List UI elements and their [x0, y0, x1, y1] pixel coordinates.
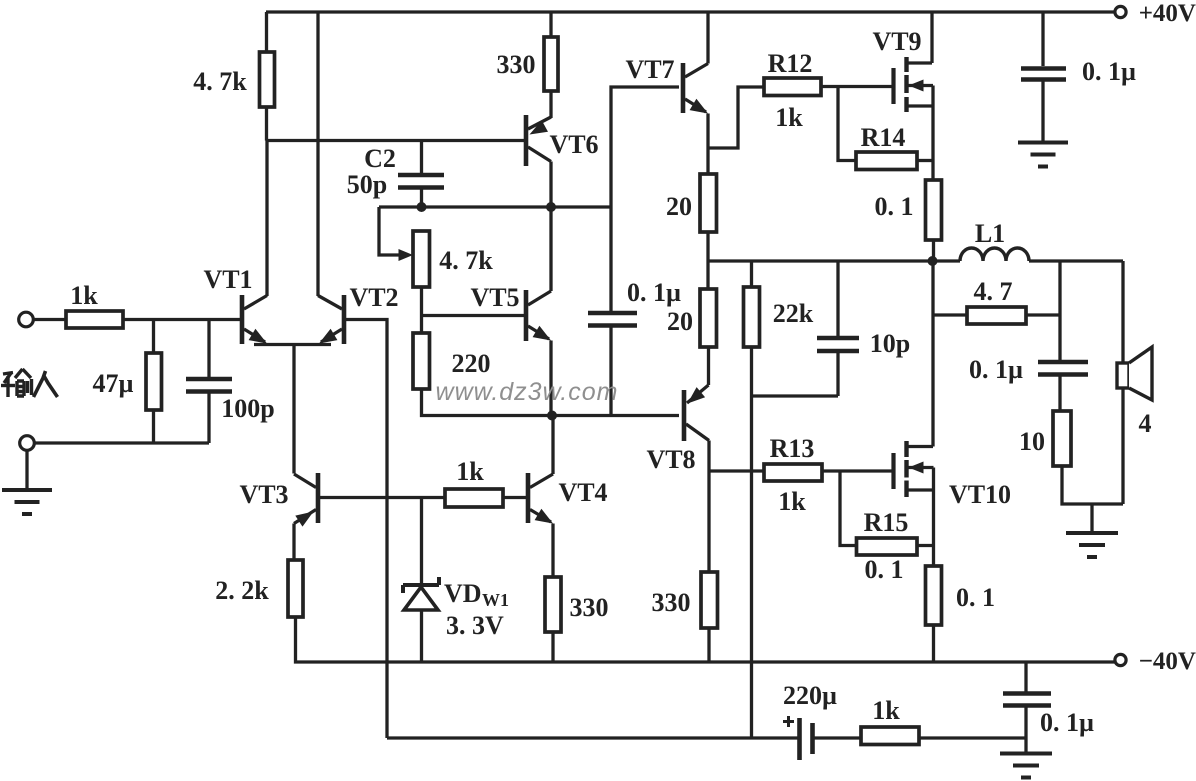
- label 1k feedback: [872, 696, 900, 725]
- label VT1: [203, 265, 252, 294]
- svg-text:www.dz3w.com: www.dz3w.com: [436, 378, 619, 406]
- resistor 1k feedback: [861, 727, 919, 745]
- label 2.2k: [215, 576, 269, 605]
- resistor 0.1 VT9: [926, 180, 942, 240]
- svg-text:0. 1: 0. 1: [875, 192, 914, 221]
- label 0.1u middle: [627, 278, 681, 307]
- transistor VT5 (NPN): [526, 290, 551, 341]
- resistor 4.7k preset: [413, 231, 430, 287]
- wire VT2 base feedback drop: [344, 320, 387, 739]
- resistor/cap 47u body: [146, 353, 162, 410]
- mosfet VT10 (N-channel): [894, 441, 934, 497]
- transistor VT8 (PNP): [684, 385, 709, 441]
- wire VT1-VT2 emitter bus: [254, 343, 331, 346]
- node junction C2/4.7k: [417, 202, 427, 212]
- svg-text:330: 330: [652, 588, 691, 617]
- wire 0.1u +rail to ground: [1041, 80, 1044, 142]
- label 3.3V: [446, 611, 504, 640]
- resistor 1k bias: [445, 489, 503, 507]
- terminal -40V: [1115, 648, 1196, 675]
- wire 47u bottom: [152, 410, 155, 443]
- svg-text:330: 330: [497, 50, 536, 79]
- capacitor 0.1u -rail: [1003, 694, 1051, 706]
- label VT4: [558, 478, 607, 507]
- svg-text:VT7: VT7: [625, 55, 674, 84]
- wire 20 upper to output node: [706, 232, 709, 261]
- wire 22k bottom: [750, 347, 753, 396]
- svg-text:10p: 10p: [870, 329, 910, 358]
- label 1k: [70, 281, 98, 310]
- label R15: [864, 508, 909, 537]
- wire input to R 1k: [34, 318, 67, 321]
- wire emitter bus to VT3 collector: [292, 345, 295, 474]
- wire 20 lower top: [706, 261, 709, 289]
- wire 330 VT8 bottom: [707, 628, 710, 662]
- resistor 220: [413, 333, 430, 389]
- wire 220 top: [420, 316, 423, 334]
- svg-text:VT8: VT8: [646, 445, 695, 474]
- wire feedback line left: [387, 736, 799, 739]
- label R12 value 1k: [775, 103, 803, 132]
- wire 22k/10p node line: [752, 394, 839, 397]
- wire +40V top supply rail: [266, 10, 1115, 13]
- watermark: [436, 378, 619, 406]
- capacitor 100p top stem: [207, 320, 210, 378]
- label 4.7: [974, 277, 1013, 306]
- wire -40V bottom supply rail: [296, 618, 1116, 662]
- wire zener top: [420, 498, 423, 586]
- svg-text:0. 1: 0. 1: [956, 583, 995, 612]
- wire 1k to VT1 base: [123, 318, 240, 321]
- svg-text:+40V: +40V: [1139, 0, 1196, 27]
- transistor VT2 (NPN, mirrored): [318, 295, 344, 344]
- terminal +40V: [1115, 0, 1196, 27]
- wire output rail: [708, 259, 960, 262]
- wire 1k feedback right: [919, 736, 1026, 739]
- wire zener bottom: [420, 610, 423, 662]
- capacitor 220u electrolytic: [800, 718, 813, 760]
- node junction VT6 collector: [546, 202, 556, 212]
- svg-text:R15: R15: [864, 508, 909, 537]
- label VT9: [872, 27, 921, 56]
- svg-text:20: 20: [667, 307, 693, 336]
- label 220u plus: [783, 716, 794, 727]
- ground -rail decoupler: [1000, 754, 1052, 778]
- wire VT5 base: [422, 314, 525, 317]
- wire 220 bottom to bias line: [422, 389, 680, 416]
- label 0.1 VT10: [956, 583, 995, 612]
- svg-text:1k: 1k: [778, 487, 806, 516]
- wire zobel drop: [1058, 261, 1061, 360]
- label 10 zobel: [1019, 427, 1045, 456]
- label R15 value 0.1: [865, 555, 904, 584]
- resistor 330 top wire: [549, 12, 552, 37]
- terminal input ground side: [20, 436, 35, 451]
- wire 0.1 VT10 bottom: [932, 625, 935, 662]
- transistor VT6 (PNP): [526, 115, 551, 166]
- capacitor 10p: [817, 338, 859, 351]
- resistor 10 zobel: [1053, 411, 1071, 466]
- wire 330 VT4 bottom: [551, 632, 554, 662]
- resistor 4.7k tail: [260, 52, 275, 107]
- wire 0.1 VT9 bottom: [932, 240, 935, 261]
- label 0.1u -rail: [1040, 708, 1094, 737]
- label speaker 4: [1139, 409, 1152, 438]
- wire 0.1u top-right stem: [1041, 12, 1044, 66]
- resistor 330 VT8: [701, 572, 718, 628]
- wire 10 bottom: [1062, 466, 1123, 504]
- resistor 4.7 damping: [967, 307, 1026, 324]
- svg-text:R12: R12: [768, 49, 813, 78]
- wire VT7 emitter down: [706, 114, 709, 175]
- label C2: [364, 144, 396, 173]
- wire VT7 base drop: [611, 87, 679, 311]
- speaker 4 ohm: [1117, 347, 1152, 400]
- label 47u: [93, 369, 134, 398]
- svg-text:VD: VD: [444, 579, 482, 608]
- svg-text:VT1: VT1: [203, 265, 252, 294]
- label R12: [768, 49, 813, 78]
- wire 20 lower to VT8 emitter: [707, 347, 710, 385]
- zener diode VDW1: [403, 577, 439, 610]
- wire VT8 collector to R13: [709, 469, 764, 472]
- label 1k bias: [456, 457, 484, 486]
- wire pot wiper: [379, 207, 401, 255]
- node junction bias line: [547, 411, 557, 421]
- wire terminal to ground: [25, 450, 28, 489]
- svg-text:20: 20: [666, 192, 692, 221]
- transistor VT1 (NPN): [242, 295, 267, 344]
- wire VT7 emitter to R12: [708, 87, 764, 148]
- pot wiper arrow: [399, 249, 414, 261]
- terminal input signal: [19, 312, 34, 327]
- wire VT4 emitter to 330: [551, 524, 554, 578]
- label 330 VT4: [570, 593, 609, 622]
- wire 1k to VT4 base: [503, 496, 526, 499]
- wire VT8 collector down: [707, 441, 710, 573]
- svg-text:−40V: −40V: [1139, 648, 1196, 675]
- wire 330 to VT6 emitter: [549, 91, 552, 118]
- wire speaker return: [1121, 388, 1124, 504]
- label 100p: [221, 394, 274, 423]
- wire 10p bottom stem: [836, 351, 839, 396]
- wire output rail after L1: [1029, 259, 1123, 262]
- svg-text:10: 10: [1019, 427, 1045, 456]
- wire VT4 collector: [551, 416, 554, 475]
- wire 0.1u -rail stem: [1024, 662, 1027, 692]
- label VT5: [470, 283, 519, 312]
- wire 10p top stem: [836, 261, 839, 336]
- label VDW1: [444, 579, 509, 610]
- label VT8: [646, 445, 695, 474]
- label R13: [770, 434, 815, 463]
- node junction output: [928, 256, 938, 266]
- label 0.1 VT9: [875, 192, 914, 221]
- wire VAS node line: [379, 205, 611, 208]
- wire VT2 collector to +rail: [316, 12, 319, 296]
- svg-text:VT6: VT6: [549, 130, 598, 159]
- label 50p: [347, 170, 387, 199]
- label VT3: [239, 480, 288, 509]
- svg-text:VT5: VT5: [470, 283, 519, 312]
- svg-text:VT2: VT2: [349, 283, 398, 312]
- svg-text:4. 7k: 4. 7k: [439, 246, 493, 275]
- wire VT6 collector: [549, 162, 552, 208]
- wire 4.7k bottom to node: [265, 107, 268, 141]
- wire speaker feed: [1121, 261, 1124, 363]
- label 0.1u zobel: [969, 355, 1023, 384]
- svg-text:1k: 1k: [456, 457, 484, 486]
- wire R15 right: [917, 544, 934, 547]
- wire R15 left drop: [840, 471, 857, 546]
- wire speaker ground stem: [1090, 504, 1093, 532]
- svg-text:C2: C2: [364, 144, 396, 173]
- resistor 20 lower: [700, 289, 717, 347]
- label VT2: [349, 283, 398, 312]
- label 10p: [870, 329, 910, 358]
- capacitor 0.1u middle: [588, 313, 637, 326]
- label 4.7k: [193, 67, 247, 96]
- resistor 1k input: [66, 311, 123, 328]
- wire VT3 base line: [320, 496, 445, 499]
- wire VT10 drain up to output: [931, 261, 934, 447]
- svg-text:100p: 100p: [221, 394, 274, 423]
- wire VT5 collector: [549, 207, 552, 291]
- label 20 upper: [666, 192, 692, 221]
- resistor 20 upper: [700, 174, 717, 232]
- wire 4.7 left: [933, 313, 967, 316]
- resistor R12: [764, 78, 821, 96]
- svg-text:0. 1: 0. 1: [865, 555, 904, 584]
- wire 0.1u -rail to ground: [1024, 706, 1027, 753]
- transistor VT7 (NPN): [683, 63, 708, 114]
- svg-text:L1: L1: [975, 219, 1005, 248]
- capacitor C2 top stem: [420, 141, 423, 174]
- wire R12 to VT9 gate: [821, 85, 894, 88]
- svg-text:1k: 1k: [70, 281, 98, 310]
- svg-text:VT10: VT10: [949, 480, 1011, 509]
- resistor 2.2k: [288, 560, 303, 617]
- label 20 lower: [667, 307, 693, 336]
- svg-text:220: 220: [452, 349, 491, 378]
- wire 4.7k preset to VT5 base node: [420, 287, 423, 316]
- resistor R14: [856, 152, 917, 170]
- svg-text:0. 1µ: 0. 1µ: [1040, 708, 1094, 737]
- wire VT1 collector: [265, 141, 268, 297]
- label 330 VT8: [652, 588, 691, 617]
- label 220u: [783, 681, 837, 710]
- resistor 330 top: [544, 37, 558, 91]
- label VT10: [949, 480, 1011, 509]
- svg-text:4. 7: 4. 7: [974, 277, 1013, 306]
- wire input shunt branch 47u: [152, 320, 155, 354]
- wire VT7 collector to +rail: [706, 12, 709, 64]
- capacitor 0.1u +rail: [1021, 69, 1066, 80]
- label 0.1u +rail: [1082, 57, 1136, 86]
- svg-text:22k: 22k: [773, 299, 814, 328]
- wire VT9 source down: [931, 86, 934, 181]
- wire VT1 collector node to VT6 base: [267, 139, 525, 142]
- wire C2 bottom: [420, 188, 423, 208]
- capacitor 0.1u zobel: [1038, 362, 1088, 375]
- wire R14 right: [917, 159, 933, 162]
- svg-text:50p: 50p: [347, 170, 387, 199]
- svg-text:3. 3V: 3. 3V: [446, 611, 504, 640]
- wire VT5 emitter: [549, 341, 552, 416]
- label R13 value 1k: [778, 487, 806, 516]
- label input 输入 (drawn strokes): [1, 369, 58, 397]
- transistor VT4 (NPN): [528, 473, 553, 524]
- inductor L1: [960, 248, 1029, 261]
- label VT7: [625, 55, 674, 84]
- svg-text:W1: W1: [482, 590, 509, 610]
- mosfet VT9 (N-channel): [894, 57, 934, 112]
- svg-text:VT4: VT4: [558, 478, 607, 507]
- svg-text:R13: R13: [770, 434, 815, 463]
- label VT6: [549, 130, 598, 159]
- svg-text:1k: 1k: [775, 103, 803, 132]
- label 4.7k preset: [439, 246, 493, 275]
- wire input return: [35, 441, 210, 444]
- transistor VT3 (PNP, left-facing): [294, 473, 318, 527]
- svg-text:VT3: VT3: [239, 480, 288, 509]
- capacitor 100p: [186, 379, 232, 392]
- wire zobel cap to 10: [1058, 375, 1061, 412]
- resistor R15: [857, 538, 918, 555]
- svg-text:220µ: 220µ: [783, 681, 837, 710]
- svg-text:330: 330: [570, 593, 609, 622]
- svg-text:4. 7k: 4. 7k: [193, 67, 247, 96]
- label L1: [975, 219, 1005, 248]
- ground input: [2, 490, 52, 514]
- ground +rail decoupler: [1018, 143, 1068, 167]
- wire 0.1u middle bottom: [609, 326, 612, 416]
- svg-text:0. 1µ: 0. 1µ: [627, 278, 681, 307]
- label 220: [452, 349, 491, 378]
- svg-text:47µ: 47µ: [93, 369, 134, 398]
- resistor R13: [764, 464, 822, 481]
- wire VT10 source down: [932, 468, 935, 567]
- svg-text:0. 1µ: 0. 1µ: [1082, 57, 1136, 86]
- svg-text:2. 2k: 2. 2k: [215, 576, 269, 605]
- resistor 330 VT4: [545, 577, 561, 632]
- resistor 0.1 VT10: [926, 566, 942, 625]
- wire 220u to 1k: [813, 736, 862, 739]
- wire 4.7 right: [1026, 313, 1060, 316]
- svg-text:VT9: VT9: [872, 27, 921, 56]
- wire R13 to VT10 gate: [822, 469, 894, 472]
- label 330 top: [497, 50, 536, 79]
- resistor 22k: [744, 287, 760, 347]
- svg-text:0. 1µ: 0. 1µ: [969, 355, 1023, 384]
- ground speaker: [1066, 533, 1118, 557]
- wire 22k top: [750, 261, 753, 287]
- label R14: [861, 123, 906, 152]
- svg-text:4: 4: [1139, 409, 1152, 438]
- capacitor C2 50p: [398, 175, 444, 188]
- capacitor 100p bottom stem: [207, 392, 210, 444]
- label 22k: [773, 299, 814, 328]
- wire VT3 emitter to 2.2k: [292, 524, 295, 561]
- svg-text:1k: 1k: [872, 696, 900, 725]
- svg-text:R14: R14: [861, 123, 906, 152]
- wire VT9 drain to +rail: [930, 12, 933, 63]
- resistor 4.7k tail top wire: [265, 12, 268, 52]
- wire feedback drop: [750, 396, 753, 738]
- wire R14 left drop: [838, 87, 856, 161]
